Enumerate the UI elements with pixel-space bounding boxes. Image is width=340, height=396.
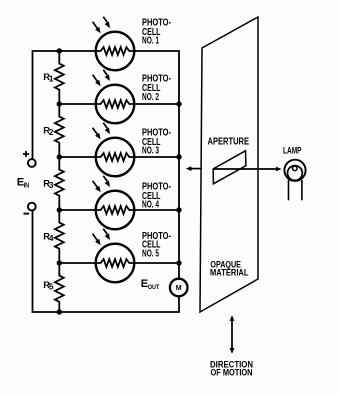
photocell PC1 light arrows [93,17,110,34]
photocell PC3 circle [96,138,135,177]
svg-text:NO. 3: NO. 3 [142,145,159,156]
resistor R1 [55,51,64,104]
wire rail 5 right [134,262,179,264]
svg-text:NO. 1: NO. 1 [142,36,159,47]
photocell PC3 resistor element [97,153,134,161]
junction dot chain y=157 [57,154,62,159]
resistor R5 [55,263,64,312]
wire top rail left [33,51,97,159]
svg-text:NO. 2: NO. 2 [142,92,159,103]
wire rail 3 right [134,156,179,158]
aperture slot [213,151,246,184]
photocell PC4 light arrows [93,176,110,193]
wire rail 4 right [134,209,179,211]
junction dot right wire y=104 [176,101,181,106]
svg-text:OF MOTION: OF MOTION [211,368,253,379]
meter M circle [170,279,188,297]
junction dot right wire y=157 [176,154,181,159]
wire rail 2 right [134,103,179,105]
label R3 [43,178,54,191]
wire rail 2 left [59,103,96,105]
junction dot chain y=104 [57,101,62,106]
light ray line through aperture [213,168,276,170]
junction dot chain y=263 [57,260,62,265]
label OPAQUE MATERIAL [210,260,249,279]
label R2 [43,125,54,138]
wire rail 5 left [59,262,96,264]
resistor R2 [55,104,64,157]
junction dot chain y=51 [57,48,62,53]
svg-text:NO. 5: NO. 5 [142,249,159,260]
wire rail 3 left [59,156,96,158]
svg-text:MATERIAL: MATERIAL [210,268,249,279]
label EIN [17,177,29,190]
label PHOTO-CELL NO. 3 [142,127,171,156]
svg-text:2: 2 [49,128,54,137]
plus sign [23,151,29,157]
svg-text:5: 5 [49,283,54,292]
light arrow to lamp (right) [276,167,282,172]
wire from minus terminal down to bottom rail [33,211,180,312]
wire rail 4 left [59,209,96,211]
photocell PC4 resistor element [97,206,134,214]
direction of motion double arrow [230,315,235,353]
terminal minus circle [28,203,36,211]
lamp leads [289,180,302,201]
svg-text:1: 1 [49,75,54,84]
photocell PC1 resistor element [97,47,134,55]
lamp bulb [284,160,305,181]
photocell PC2 circle [96,85,135,124]
terminal plus circle [28,159,36,167]
light arrow to photocells (left) [186,166,202,171]
junction dot right wire y=263 [176,260,181,265]
junction dot chain y=210 [57,207,62,212]
svg-text:M: M [176,285,182,292]
svg-text:3: 3 [49,181,54,190]
label PHOTO-CELL NO. 5 [142,231,171,260]
photocell PC4 circle [96,191,135,230]
wire top rail right [134,51,179,279]
label R4 [43,231,54,244]
label PHOTO-CELL NO. 1 [142,18,171,47]
photocell PC5 resistor element [97,259,134,267]
svg-text:LAMP: LAMP [283,146,302,156]
svg-text:IN: IN [24,182,30,189]
photocell PC1 circle [96,32,135,71]
svg-text:APERTURE: APERTURE [208,136,250,147]
resistor R4 [55,210,64,263]
label R1 [43,71,54,84]
resistor R3 [55,157,64,210]
svg-text:4: 4 [49,234,54,243]
junction dot right wire y=210 [176,207,181,212]
label EOUT [141,278,160,291]
label PHOTO-CELL NO. 4 [142,181,171,210]
label DIRECTION OF MOTION [210,359,253,378]
label PHOTO-CELL NO. 2 [142,74,171,103]
opaque material panel [200,17,258,312]
photocell PC5 light arrows [93,229,110,246]
photocell PC5 circle [96,244,135,283]
svg-text:NO. 4: NO. 4 [142,200,159,211]
photocell PC2 light arrows [93,70,110,87]
label R5 [43,279,54,292]
photocell PC2 resistor element [97,100,134,108]
svg-text:OUT: OUT [148,284,160,291]
photocell PC3 light arrows [93,123,110,140]
minus sign [24,213,30,215]
junction dot chain y=312 [57,309,62,314]
